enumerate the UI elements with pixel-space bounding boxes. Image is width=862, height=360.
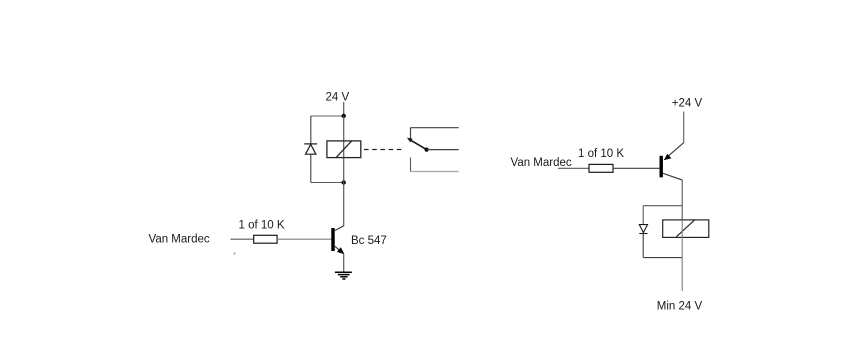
wire resistor R1 to base of Q1 [277,238,331,240]
junction dot top [342,114,346,118]
contact bottom throw vertical stub [410,158,412,172]
wire diode branch upper vertical [310,116,312,144]
wire branch top horizontal [643,205,682,207]
contact top throw vertical stub [410,128,412,141]
resistor R2 body [589,164,613,172]
transistor Q1 emitter diagonal [335,246,344,253]
svg-text:Bc 547: Bc 547 [351,235,387,247]
transistor Q1 emitter arrow [337,247,345,254]
wire top horizontal to diode branch [311,115,344,117]
diode D2 (flyback, cathode down) [639,225,647,234]
transistor Q2 emitter diagonal [667,143,684,158]
wire from +24V label down [683,112,685,144]
transistor Q1 collector diagonal [335,226,344,231]
svg-text:Van Mardec: Van Mardec [149,234,210,246]
contact common horizontal [427,149,459,151]
wire diode branch lower vertical [310,154,312,182]
contact top throw horizontal [411,127,459,129]
wire branch bottom horizontal [643,257,682,259]
wire from 24V label down to top junction [343,102,345,116]
wire input to resistor R1 [231,238,254,240]
wire collector of Q1 up to relay junction [343,183,345,227]
contact common dot [425,148,429,152]
svg-text:Min 24 V: Min 24 V [657,301,703,313]
contact armature with arrow [410,140,427,150]
diode D1 (flyback, cathode up) [304,144,317,154]
svg-text:1 of 10 K: 1 of 10 K [239,220,285,232]
contact bottom throw horizontal [411,171,459,173]
wire diode branch lower vertical right [642,234,644,258]
wire diode branch upper vertical right [642,206,644,225]
svg-text:+24 V: +24 V [672,98,703,110]
wire junction through relay coil to bottom junction [343,116,345,183]
ground symbol [335,272,352,279]
junction dot bottom [342,180,346,184]
relay coil K1 [327,141,361,158]
transistor Q2 emitter arrow (PNP, points into base) [664,154,672,161]
transistor Q2 base bar [660,156,663,178]
transistor Q1 base bar [331,228,334,251]
wire resistor R2 to base of Q2 [613,167,660,169]
svg-text:1 of 10 K: 1 of 10 K [578,148,624,160]
relay coil K2 [663,220,709,238]
wire bottom horizontal of diode branch [311,182,344,184]
wire input to resistor R2 [558,167,589,169]
svg-text:24 V: 24 V [326,92,350,104]
dashed mechanical link [364,149,403,151]
stray dot mark [234,253,236,255]
wire emitter of Q1 to ground [343,254,345,272]
transistor Q2 collector diagonal [663,173,682,180]
wire through relay K2 down to Min 24 V [681,220,683,291]
resistor R1 body [254,235,277,243]
wire collector of Q2 down to relay [681,180,683,220]
svg-text:Van Mardec: Van Mardec [511,157,572,169]
